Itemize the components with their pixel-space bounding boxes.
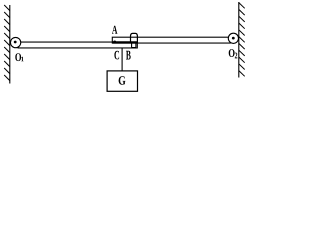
label B: [126, 51, 131, 60]
pivot O1 (hinge circle on left wall): [10, 37, 20, 47]
rod O1-A (lower-left rod, outline bar): [18, 42, 137, 48]
label O1 subscript: [21, 57, 23, 61]
label G: [119, 76, 126, 84]
label O2 subscript: [235, 53, 237, 59]
left wall hatching: [4, 5, 10, 81]
label O1 (O): [15, 53, 21, 61]
label O2 (O): [229, 49, 235, 57]
overlap band where rod edges coincide (A to collar): [112, 41, 137, 43]
left wall: [9, 5, 11, 84]
label A: [112, 26, 117, 34]
right wall: [238, 2, 240, 78]
pivot O2 (hinge circle on right wall): [228, 33, 238, 43]
pivot O2 center dot: [232, 37, 235, 40]
collar ring at end of rod O1 around rod B-O2 (upper loop): [131, 33, 138, 42]
rod B-O2 (upper-right rod, outline bar): [112, 37, 230, 43]
point A dot on rod: [113, 41, 116, 44]
pivot O1 center dot: [14, 41, 17, 44]
collar ring lower legs: [131, 43, 136, 48]
weight box G: [107, 71, 137, 91]
label C: [114, 51, 119, 60]
string from rod down to weight: [121, 48, 123, 71]
right wall hatching: [239, 3, 245, 77]
